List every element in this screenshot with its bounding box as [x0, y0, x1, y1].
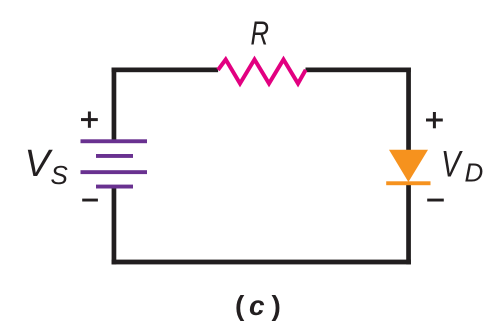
battery VS plate 4 (short, negative) — [96, 185, 133, 189]
battery plus sign — [81, 112, 98, 128]
svg-text:(: ( — [235, 290, 245, 321]
battery minus sign — [82, 199, 98, 202]
svg-text:S: S — [51, 160, 69, 190]
diode plus sign — [426, 112, 443, 128]
svg-text:c: c — [249, 290, 265, 321]
wire right vertical upper segment — [406, 68, 411, 156]
wire bottom horizontal segment — [112, 260, 411, 265]
svg-text:R: R — [251, 15, 270, 52]
svg-text:D: D — [465, 158, 484, 188]
caption (c) — [235, 290, 281, 321]
wire right vertical lower segment — [406, 183, 411, 264]
diode D1 cathode bar — [386, 181, 430, 185]
battery VS plate 1 (long, positive) — [81, 139, 148, 143]
diode minus sign — [427, 199, 444, 202]
wire left vertical upper segment — [112, 68, 117, 141]
diode D1 anode triangle — [389, 150, 428, 182]
battery VS plate 3 (long) — [81, 170, 148, 174]
wire top-left horizontal segment — [112, 68, 219, 73]
resistor R1 zigzag — [218, 60, 306, 84]
svg-text:V: V — [441, 144, 463, 185]
svg-text:V: V — [25, 143, 54, 185]
battery VS plate 2 (short) — [96, 154, 133, 158]
wire left vertical lower segment — [112, 187, 117, 265]
wire top-right horizontal segment — [306, 68, 411, 73]
svg-text:): ) — [272, 290, 281, 321]
